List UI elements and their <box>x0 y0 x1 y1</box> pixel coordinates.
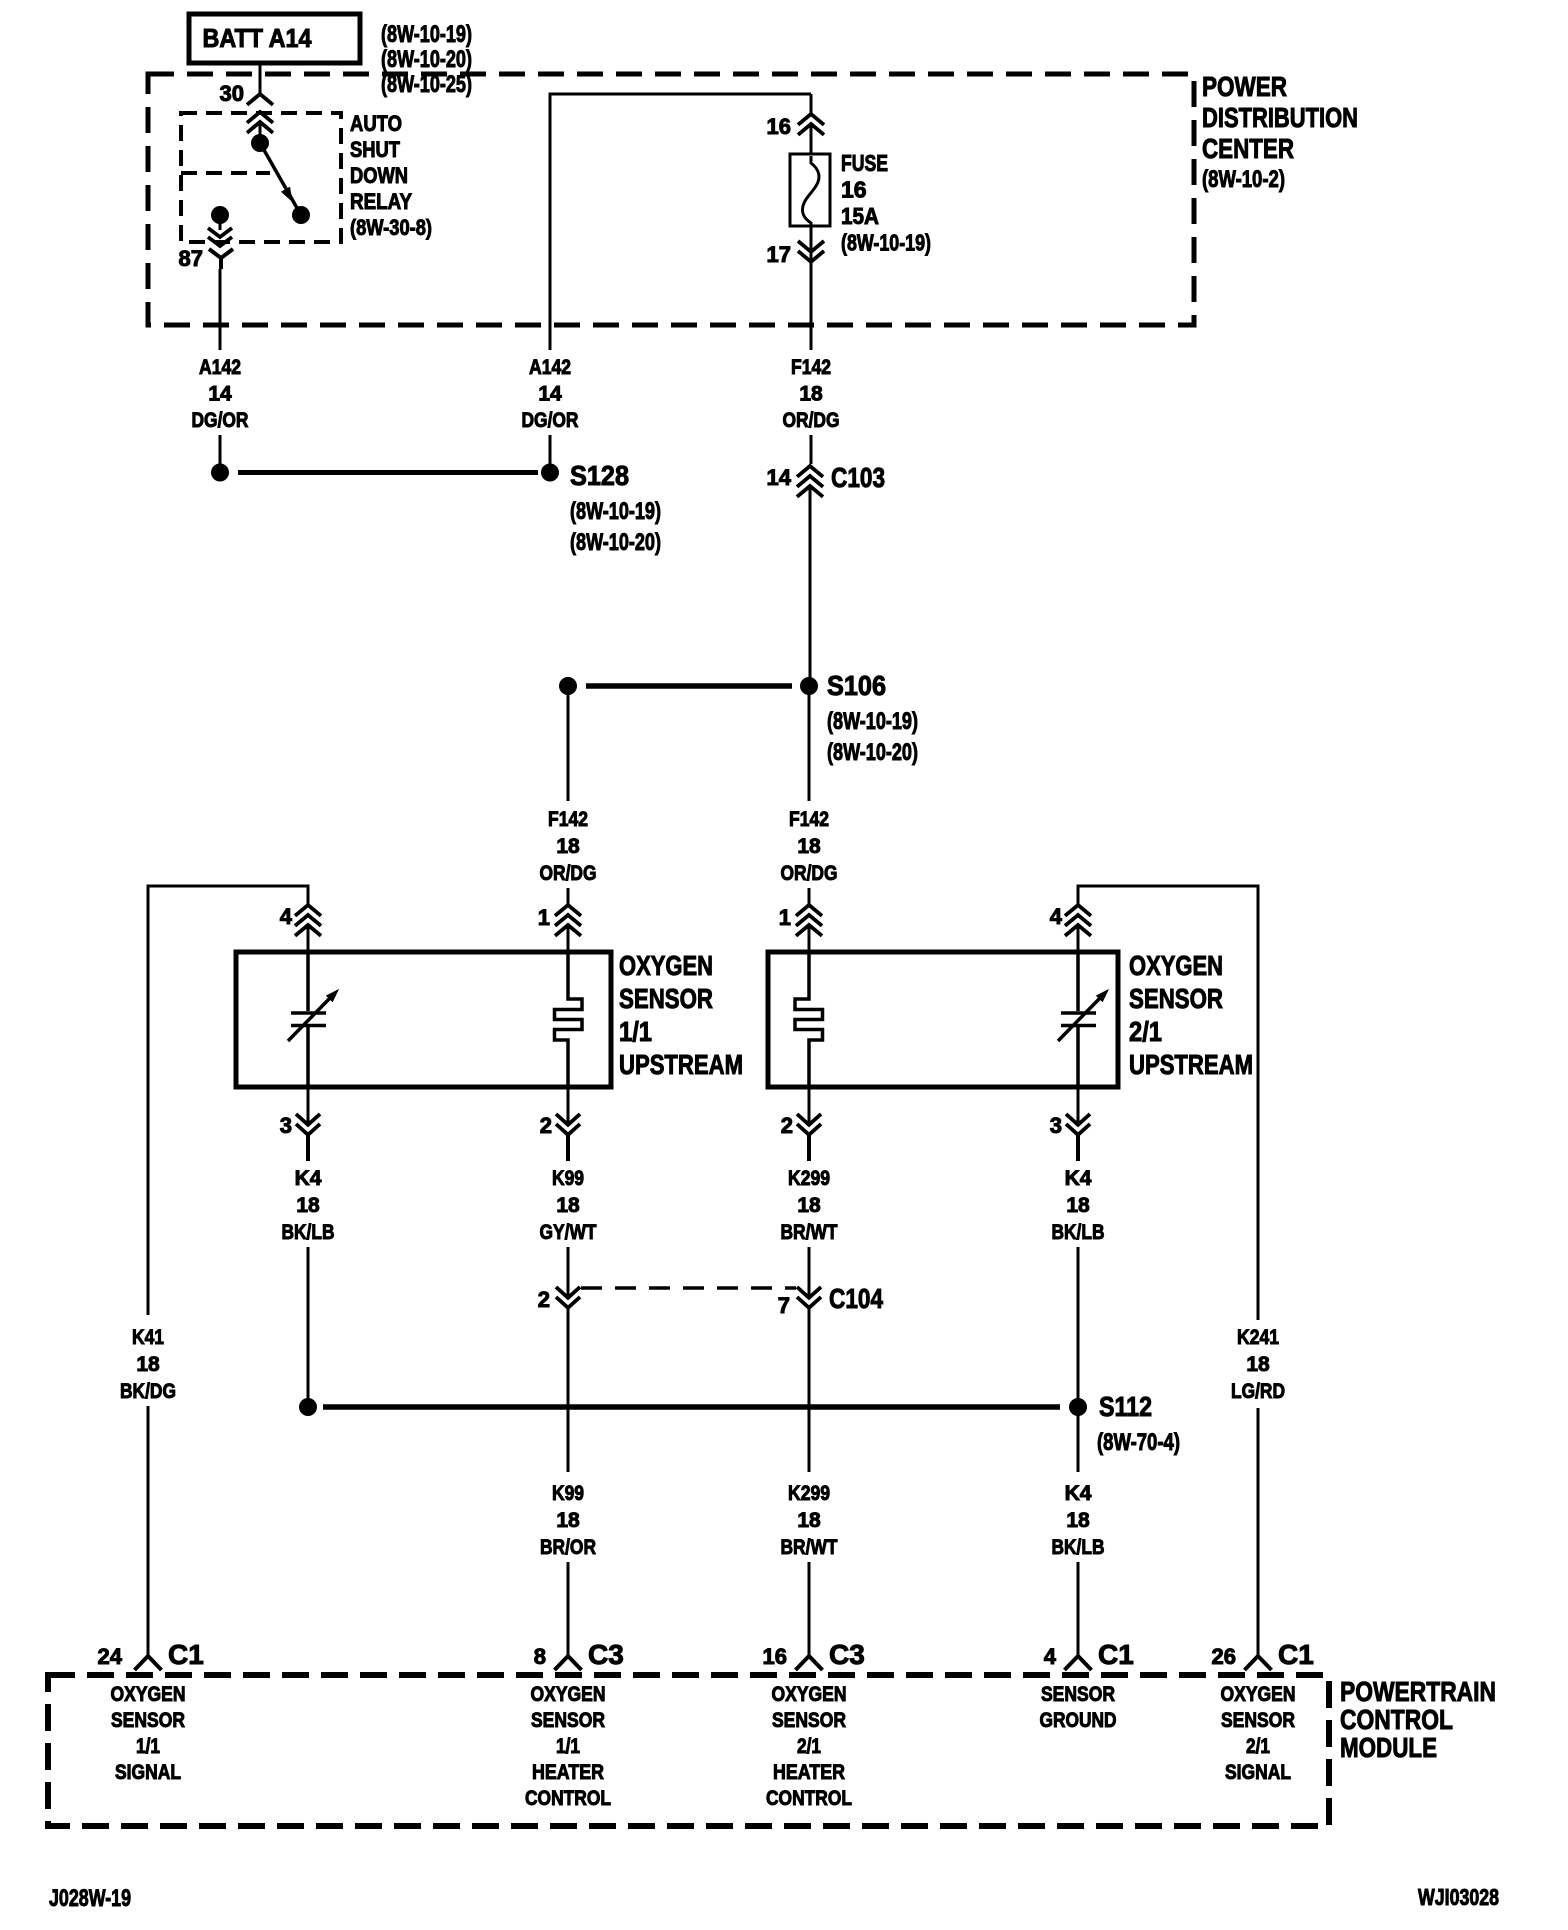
PCM pin 16 function text <box>766 1683 852 1810</box>
wire K41 sensor 1/1 pin 4 run <box>148 886 308 1315</box>
svg-text:18: 18 <box>1066 1509 1090 1532</box>
PCM pin 24 C1 connector <box>135 1656 162 1670</box>
wire K299 to C104 <box>808 1247 811 1298</box>
sensor 1/1 pin 3 label <box>280 1113 292 1138</box>
svg-text:1: 1 <box>779 905 791 930</box>
splice S106 label <box>827 670 918 766</box>
pin 30 connector <box>247 94 273 143</box>
svg-text:(8W-10-20): (8W-10-20) <box>570 529 661 556</box>
svg-text:18: 18 <box>296 1194 320 1217</box>
svg-text:F142: F142 <box>791 356 831 379</box>
sensor 2/1 pin 4 connector <box>1065 905 1091 954</box>
svg-text:CONTROL: CONTROL <box>525 1787 611 1810</box>
splice S128 label <box>570 460 661 556</box>
svg-text:GY/WT: GY/WT <box>540 1221 597 1244</box>
wire K41 lower segment <box>147 1406 150 1656</box>
svg-text:16: 16 <box>841 177 867 203</box>
svg-text:BK/LB: BK/LB <box>1052 1221 1105 1244</box>
svg-text:K99: K99 <box>552 1167 584 1190</box>
svg-text:(8W-10-19): (8W-10-19) <box>381 21 472 48</box>
svg-text:F142: F142 <box>789 808 829 831</box>
wire label F142 left branch <box>540 808 597 885</box>
svg-text:RELAY: RELAY <box>350 189 412 214</box>
power distribution center title <box>1202 71 1358 193</box>
PCM pin 26 function text <box>1221 1683 1296 1784</box>
relay output contact to pin 87 <box>212 207 229 231</box>
wire F142 S106 to O2 sensor 1/1 pin 1 <box>567 686 570 906</box>
svg-text:UPSTREAM: UPSTREAM <box>619 1049 743 1080</box>
svg-text:SENSOR: SENSOR <box>772 1709 846 1732</box>
svg-text:18: 18 <box>797 1509 821 1532</box>
wire label K4 right upper <box>1052 1167 1105 1244</box>
wire label A142 middle <box>522 356 579 432</box>
wire F142 C103 to S106 <box>809 486 812 686</box>
sensor 2/1 sensing element <box>1058 952 1108 1087</box>
wire K241 lower segment <box>1257 1408 1260 1656</box>
PCM pin 4 function text <box>1040 1683 1117 1732</box>
svg-text:CONTROL: CONTROL <box>1340 1704 1453 1735</box>
connector C103 label <box>831 462 885 493</box>
PCM pin 26 labels <box>1212 1639 1314 1670</box>
sensor 1/1 pin 1 label <box>538 905 550 930</box>
svg-text:AUTO: AUTO <box>350 111 402 136</box>
oxygen sensor 2/1 title <box>1129 950 1253 1080</box>
svg-text:15A: 15A <box>841 203 879 229</box>
svg-text:C3: C3 <box>829 1639 865 1670</box>
svg-text:S128: S128 <box>570 460 629 491</box>
svg-text:1/1: 1/1 <box>136 1735 160 1758</box>
svg-text:(8W-70-4): (8W-70-4) <box>1097 1429 1180 1456</box>
pin 87 label <box>179 246 203 271</box>
sensor 1/1 pin 4 connector <box>295 905 321 954</box>
wire A142 middle riser <box>549 93 552 465</box>
reference notes for BATT A14 feed <box>381 21 472 98</box>
svg-text:BK/LB: BK/LB <box>282 1221 335 1244</box>
svg-text:K4: K4 <box>1065 1482 1092 1505</box>
wire F142 fuse feed <box>810 94 813 114</box>
svg-text:BK/DG: BK/DG <box>120 1380 176 1403</box>
svg-text:18: 18 <box>556 1194 580 1217</box>
wire from BATT A14 to relay pin 30 <box>259 64 262 93</box>
svg-text:SENSOR: SENSOR <box>531 1709 605 1732</box>
svg-text:DG/OR: DG/OR <box>192 409 249 432</box>
svg-text:A142: A142 <box>529 356 571 379</box>
wire K4 right to splice S112 <box>1077 1247 1080 1398</box>
svg-text:16: 16 <box>763 1644 787 1669</box>
sensor 2/1 heater element <box>795 952 823 1087</box>
PCM pin 16 C3 connector <box>796 1656 823 1670</box>
svg-text:OXYGEN: OXYGEN <box>111 1683 186 1706</box>
svg-text:S106: S106 <box>827 670 886 701</box>
wire label K4 left <box>282 1167 335 1244</box>
svg-text:BR/WT: BR/WT <box>781 1536 838 1559</box>
connector C104 right half <box>797 1287 821 1308</box>
PCM pin 4 labels <box>1044 1639 1134 1670</box>
splice S112 <box>300 1399 1087 1416</box>
svg-text:(8W-10-20): (8W-10-20) <box>381 46 472 73</box>
svg-text:LG/RD: LG/RD <box>1231 1380 1285 1403</box>
sensor 2/1 pin 3 label <box>1050 1113 1062 1138</box>
svg-text:(8W-10-19): (8W-10-19) <box>827 708 918 735</box>
PCM pin 26 C1 connector <box>1245 1656 1272 1670</box>
svg-text:UPSTREAM: UPSTREAM <box>1129 1049 1253 1080</box>
fuse pin 17 label <box>767 242 791 267</box>
svg-text:14: 14 <box>538 383 562 406</box>
svg-text:BR/OR: BR/OR <box>540 1536 596 1559</box>
wire label K99 upper <box>540 1167 597 1244</box>
PCM pin 8 C3 connector <box>555 1656 582 1670</box>
relay switch arm <box>260 143 301 215</box>
svg-text:26: 26 <box>1212 1644 1236 1669</box>
PCM pin 4 C1 connector <box>1065 1656 1092 1670</box>
svg-text:K4: K4 <box>295 1167 322 1190</box>
wire K99 to C104 <box>567 1247 570 1298</box>
wire label K41 <box>120 1326 176 1403</box>
PCM pin 8 labels <box>534 1639 624 1670</box>
svg-text:18: 18 <box>1066 1194 1090 1217</box>
svg-text:SHUT: SHUT <box>350 137 400 162</box>
footer sheet number <box>49 1885 131 1912</box>
connector C104 label <box>829 1283 883 1314</box>
svg-text:18: 18 <box>556 1509 580 1532</box>
sensor 1/1 pin 3 connector <box>296 1087 320 1161</box>
svg-text:SENSOR: SENSOR <box>1129 983 1223 1014</box>
svg-text:2/1: 2/1 <box>1129 1016 1162 1047</box>
relay common contact <box>252 135 269 152</box>
svg-text:POWER: POWER <box>1202 71 1287 102</box>
svg-text:1: 1 <box>538 905 550 930</box>
sensor 2/1 pin 3 connector <box>1066 1087 1090 1161</box>
svg-text:K4: K4 <box>1065 1167 1092 1190</box>
svg-text:CONTROL: CONTROL <box>766 1787 852 1810</box>
svg-text:18: 18 <box>799 383 823 406</box>
svg-text:4: 4 <box>280 904 293 929</box>
svg-text:K299: K299 <box>788 1167 830 1190</box>
svg-text:SENSOR: SENSOR <box>1041 1683 1115 1706</box>
sensor 2/1 pin 1 label <box>779 905 791 930</box>
wire K299 C104 to PCM <box>808 1308 811 1656</box>
powertrain control module box <box>48 1675 1329 1826</box>
connector C104 left half <box>556 1287 580 1308</box>
wire K4 left to splice S112 <box>307 1247 310 1398</box>
splice S112 label <box>1097 1391 1180 1456</box>
svg-text:SIGNAL: SIGNAL <box>115 1761 181 1784</box>
svg-text:CENTER: CENTER <box>1202 133 1294 164</box>
svg-text:K41: K41 <box>132 1326 164 1349</box>
svg-text:C103: C103 <box>831 462 885 493</box>
sensor 1/1 pin 1 connector <box>555 905 581 954</box>
svg-text:3: 3 <box>1050 1113 1062 1138</box>
svg-text:(8W-30-8): (8W-30-8) <box>350 215 432 240</box>
wire label F142 upper <box>783 356 840 432</box>
svg-text:J028W-19: J028W-19 <box>49 1885 131 1912</box>
svg-text:17: 17 <box>767 242 791 267</box>
connector C103 pin label <box>767 465 792 490</box>
svg-text:C3: C3 <box>588 1639 624 1670</box>
svg-text:14: 14 <box>208 383 232 406</box>
svg-text:18: 18 <box>1246 1353 1270 1376</box>
power distribution center box <box>148 74 1194 325</box>
connector C104 right pin label <box>778 1293 790 1318</box>
svg-text:DG/OR: DG/OR <box>522 409 579 432</box>
svg-text:K241: K241 <box>1237 1326 1279 1349</box>
wire K241 sensor 2/1 pin 4 run <box>1078 886 1258 1320</box>
svg-text:2: 2 <box>540 1113 552 1138</box>
svg-text:SENSOR: SENSOR <box>1221 1709 1295 1732</box>
sensor 1/1 pin 2 connector <box>556 1087 580 1161</box>
svg-text:DOWN: DOWN <box>350 163 408 188</box>
svg-text:SENSOR: SENSOR <box>619 983 713 1014</box>
svg-text:K299: K299 <box>788 1482 830 1505</box>
wire A142 pin87 to S128 <box>219 269 222 464</box>
svg-text:87: 87 <box>179 246 203 271</box>
sensor 1/1 heater element <box>555 952 583 1087</box>
svg-text:FUSE: FUSE <box>841 150 888 176</box>
svg-text:WJI03028: WJI03028 <box>1418 1884 1499 1910</box>
wire K99 C104 to PCM <box>567 1308 570 1656</box>
svg-text:BATT A14: BATT A14 <box>203 23 312 53</box>
splice S106 <box>560 678 818 695</box>
wire label K4 lower <box>1052 1482 1105 1559</box>
svg-text:OR/DG: OR/DG <box>540 862 597 885</box>
svg-text:BR/WT: BR/WT <box>781 1221 838 1244</box>
svg-text:C1: C1 <box>168 1639 204 1670</box>
svg-text:OXYGEN: OXYGEN <box>772 1683 847 1706</box>
svg-text:4: 4 <box>1044 1644 1057 1669</box>
svg-text:1/1: 1/1 <box>556 1735 580 1758</box>
wire label K299 lower <box>781 1482 838 1559</box>
svg-text:HEATER: HEATER <box>773 1761 845 1784</box>
wire label F142 right branch <box>781 808 838 885</box>
wire F142 S106 to O2 sensor 2/1 pin 1 <box>808 686 811 906</box>
oxygen sensor 1/1 title <box>619 950 743 1080</box>
svg-text:7: 7 <box>778 1293 790 1318</box>
svg-text:(8W-10-2): (8W-10-2) <box>1202 166 1285 193</box>
svg-text:BK/LB: BK/LB <box>1052 1536 1105 1559</box>
svg-text:16: 16 <box>767 114 791 139</box>
svg-text:2: 2 <box>781 1113 793 1138</box>
oxygen sensor 1/1 upstream box <box>236 952 611 1087</box>
fuse pin 17 connector <box>798 226 824 262</box>
sensor 1/1 pin 4 label <box>280 904 293 929</box>
svg-text:1/1: 1/1 <box>619 1016 652 1047</box>
wire label A142 left <box>192 356 249 432</box>
svg-text:C1: C1 <box>1098 1639 1134 1670</box>
svg-text:4: 4 <box>1050 904 1063 929</box>
svg-text:OXYGEN: OXYGEN <box>1129 950 1223 981</box>
svg-text:SENSOR: SENSOR <box>111 1709 185 1732</box>
svg-text:(8W-10-19): (8W-10-19) <box>841 230 931 256</box>
connector C104 jumper <box>581 1286 796 1290</box>
svg-text:POWERTRAIN: POWERTRAIN <box>1340 1676 1496 1707</box>
svg-text:S112: S112 <box>1099 1391 1152 1422</box>
auto shut down relay box <box>181 113 341 242</box>
connector C103 <box>797 466 823 497</box>
svg-text:GROUND: GROUND <box>1040 1709 1117 1732</box>
wire label K241 <box>1231 1326 1285 1403</box>
svg-text:14: 14 <box>767 465 792 490</box>
svg-text:3: 3 <box>280 1113 292 1138</box>
svg-text:(8W-10-19): (8W-10-19) <box>570 498 661 525</box>
svg-text:18: 18 <box>136 1353 160 1376</box>
svg-text:OXYGEN: OXYGEN <box>619 950 713 981</box>
fuse label <box>841 150 931 256</box>
powertrain control module title <box>1340 1676 1496 1763</box>
battery feed box BATT A14 <box>189 14 360 63</box>
fuse pin 16 connector <box>798 114 824 155</box>
pin 87 connector <box>208 228 233 269</box>
fuse pin 16 label <box>767 114 791 139</box>
sensor 1/1 sensing element <box>288 952 338 1087</box>
svg-text:F142: F142 <box>548 808 588 831</box>
svg-text:2/1: 2/1 <box>797 1735 821 1758</box>
wire F142 to C103 <box>810 253 813 464</box>
svg-text:C104: C104 <box>829 1283 883 1314</box>
svg-text:DISTRIBUTION: DISTRIBUTION <box>1202 102 1358 133</box>
PCM pin 8 function text <box>525 1683 611 1810</box>
auto shut down relay title <box>350 111 432 240</box>
splice S128 <box>212 464 559 481</box>
svg-text:HEATER: HEATER <box>532 1761 604 1784</box>
svg-text:SIGNAL: SIGNAL <box>1225 1761 1291 1784</box>
oxygen sensor 2/1 upstream box <box>768 952 1118 1087</box>
sensor 1/1 pin 2 label <box>540 1113 552 1138</box>
PCM pin 24 function text <box>111 1683 186 1784</box>
svg-text:A142: A142 <box>199 356 241 379</box>
svg-text:MODULE: MODULE <box>1340 1732 1437 1763</box>
relay normally-open contact <box>293 207 310 224</box>
svg-text:(8W-10-20): (8W-10-20) <box>827 739 918 766</box>
sensor 2/1 pin 2 label <box>781 1113 793 1138</box>
svg-text:18: 18 <box>797 1194 821 1217</box>
svg-text:OR/DG: OR/DG <box>783 409 840 432</box>
svg-text:2/1: 2/1 <box>1246 1735 1270 1758</box>
svg-text:K99: K99 <box>552 1482 584 1505</box>
pin 30 label <box>220 81 244 106</box>
sensor 2/1 pin 1 connector <box>796 905 822 954</box>
svg-text:OR/DG: OR/DG <box>781 862 838 885</box>
sensor 2/1 pin 4 label <box>1050 904 1063 929</box>
svg-text:OXYGEN: OXYGEN <box>531 1683 606 1706</box>
wire label K99 lower <box>540 1482 596 1559</box>
svg-text:2: 2 <box>538 1287 550 1312</box>
svg-text:OXYGEN: OXYGEN <box>1221 1683 1296 1706</box>
svg-text:C1: C1 <box>1278 1639 1314 1670</box>
wire top run to fuse feed <box>549 93 812 96</box>
wire K4 S112 to PCM <box>1077 1407 1080 1656</box>
PCM pin 24 labels <box>98 1639 204 1670</box>
footer drawing number <box>1418 1884 1499 1910</box>
svg-text:8: 8 <box>534 1644 546 1669</box>
svg-text:18: 18 <box>556 835 580 858</box>
fuse 16 15A <box>790 154 830 226</box>
connector C104 left pin label <box>538 1287 550 1312</box>
sensor 2/1 pin 2 connector <box>797 1087 821 1161</box>
PCM pin 16 labels <box>763 1639 865 1670</box>
wire label K299 upper <box>781 1167 838 1244</box>
svg-text:30: 30 <box>220 81 244 106</box>
svg-text:24: 24 <box>98 1644 123 1669</box>
svg-text:18: 18 <box>797 835 821 858</box>
